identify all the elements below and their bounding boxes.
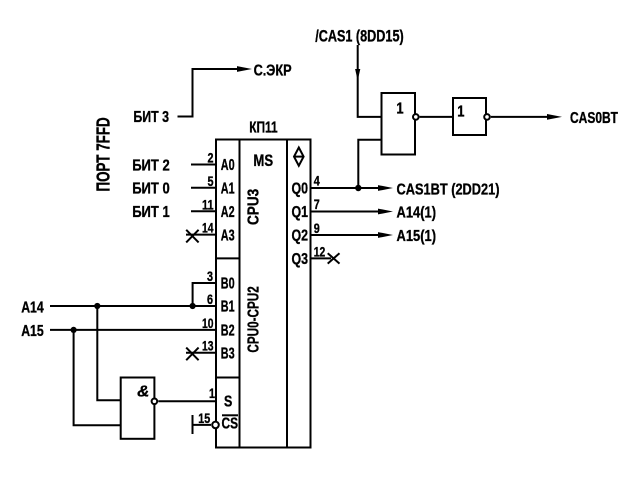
- svg-text:14: 14: [202, 220, 214, 236]
- svg-text:A15: A15: [21, 323, 44, 340]
- svg-text:БИТ 0: БИТ 0: [132, 181, 170, 198]
- svg-text:A3: A3: [221, 227, 235, 244]
- svg-text:CPU3: CPU3: [246, 189, 263, 225]
- svg-text:5: 5: [208, 173, 214, 189]
- svg-text:13: 13: [202, 338, 214, 354]
- svg-text:КП11: КП11: [249, 120, 278, 137]
- svg-text:B1: B1: [221, 299, 235, 316]
- svg-text:ПОРТ 7FFD: ПОРТ 7FFD: [93, 117, 113, 191]
- svg-text:БИТ 2: БИТ 2: [132, 157, 170, 174]
- svg-text:Q0: Q0: [292, 181, 309, 198]
- svg-text:БИТ 3: БИТ 3: [133, 109, 169, 126]
- svg-text:B3: B3: [221, 345, 235, 362]
- svg-text:2: 2: [208, 150, 214, 166]
- svg-text:6: 6: [207, 291, 213, 307]
- svg-text:1: 1: [396, 101, 403, 118]
- svg-text:CS: CS: [222, 416, 239, 433]
- svg-text:1: 1: [209, 385, 215, 401]
- svg-text:9: 9: [314, 220, 320, 236]
- svg-text:7: 7: [314, 196, 320, 212]
- svg-text:B0: B0: [221, 276, 235, 293]
- svg-text:10: 10: [202, 315, 214, 331]
- svg-text:Q2: Q2: [292, 228, 309, 245]
- svg-text:4: 4: [314, 173, 320, 189]
- svg-text:CAS1BT (2DD21): CAS1BT (2DD21): [397, 181, 500, 198]
- svg-text:Q1: Q1: [292, 204, 309, 221]
- svg-text:12: 12: [314, 243, 326, 259]
- svg-text:CAS0BT: CAS0BT: [570, 110, 618, 127]
- svg-text:A1: A1: [221, 180, 235, 197]
- svg-text:Q3: Q3: [292, 251, 309, 268]
- svg-text:БИТ 1: БИТ 1: [132, 204, 170, 221]
- svg-text:A14: A14: [21, 299, 44, 316]
- svg-text:MS: MS: [253, 151, 273, 170]
- svg-text:A14(1): A14(1): [397, 205, 437, 222]
- svg-text:/CAS1 (8DD15): /CAS1 (8DD15): [315, 27, 404, 46]
- svg-text:A0: A0: [221, 157, 235, 174]
- svg-text:11: 11: [202, 196, 214, 212]
- svg-text:3: 3: [207, 268, 213, 284]
- svg-text:С.ЭКР: С.ЭКР: [254, 62, 292, 79]
- svg-text:&: &: [137, 383, 149, 400]
- svg-text:1: 1: [457, 103, 464, 120]
- svg-text:A15(1): A15(1): [397, 228, 437, 245]
- svg-text:S: S: [224, 394, 233, 411]
- svg-text:B2: B2: [221, 322, 235, 339]
- svg-text:CPU0-CPU2: CPU0-CPU2: [246, 286, 263, 352]
- svg-text:A2: A2: [221, 204, 235, 221]
- svg-text:15: 15: [198, 410, 210, 426]
